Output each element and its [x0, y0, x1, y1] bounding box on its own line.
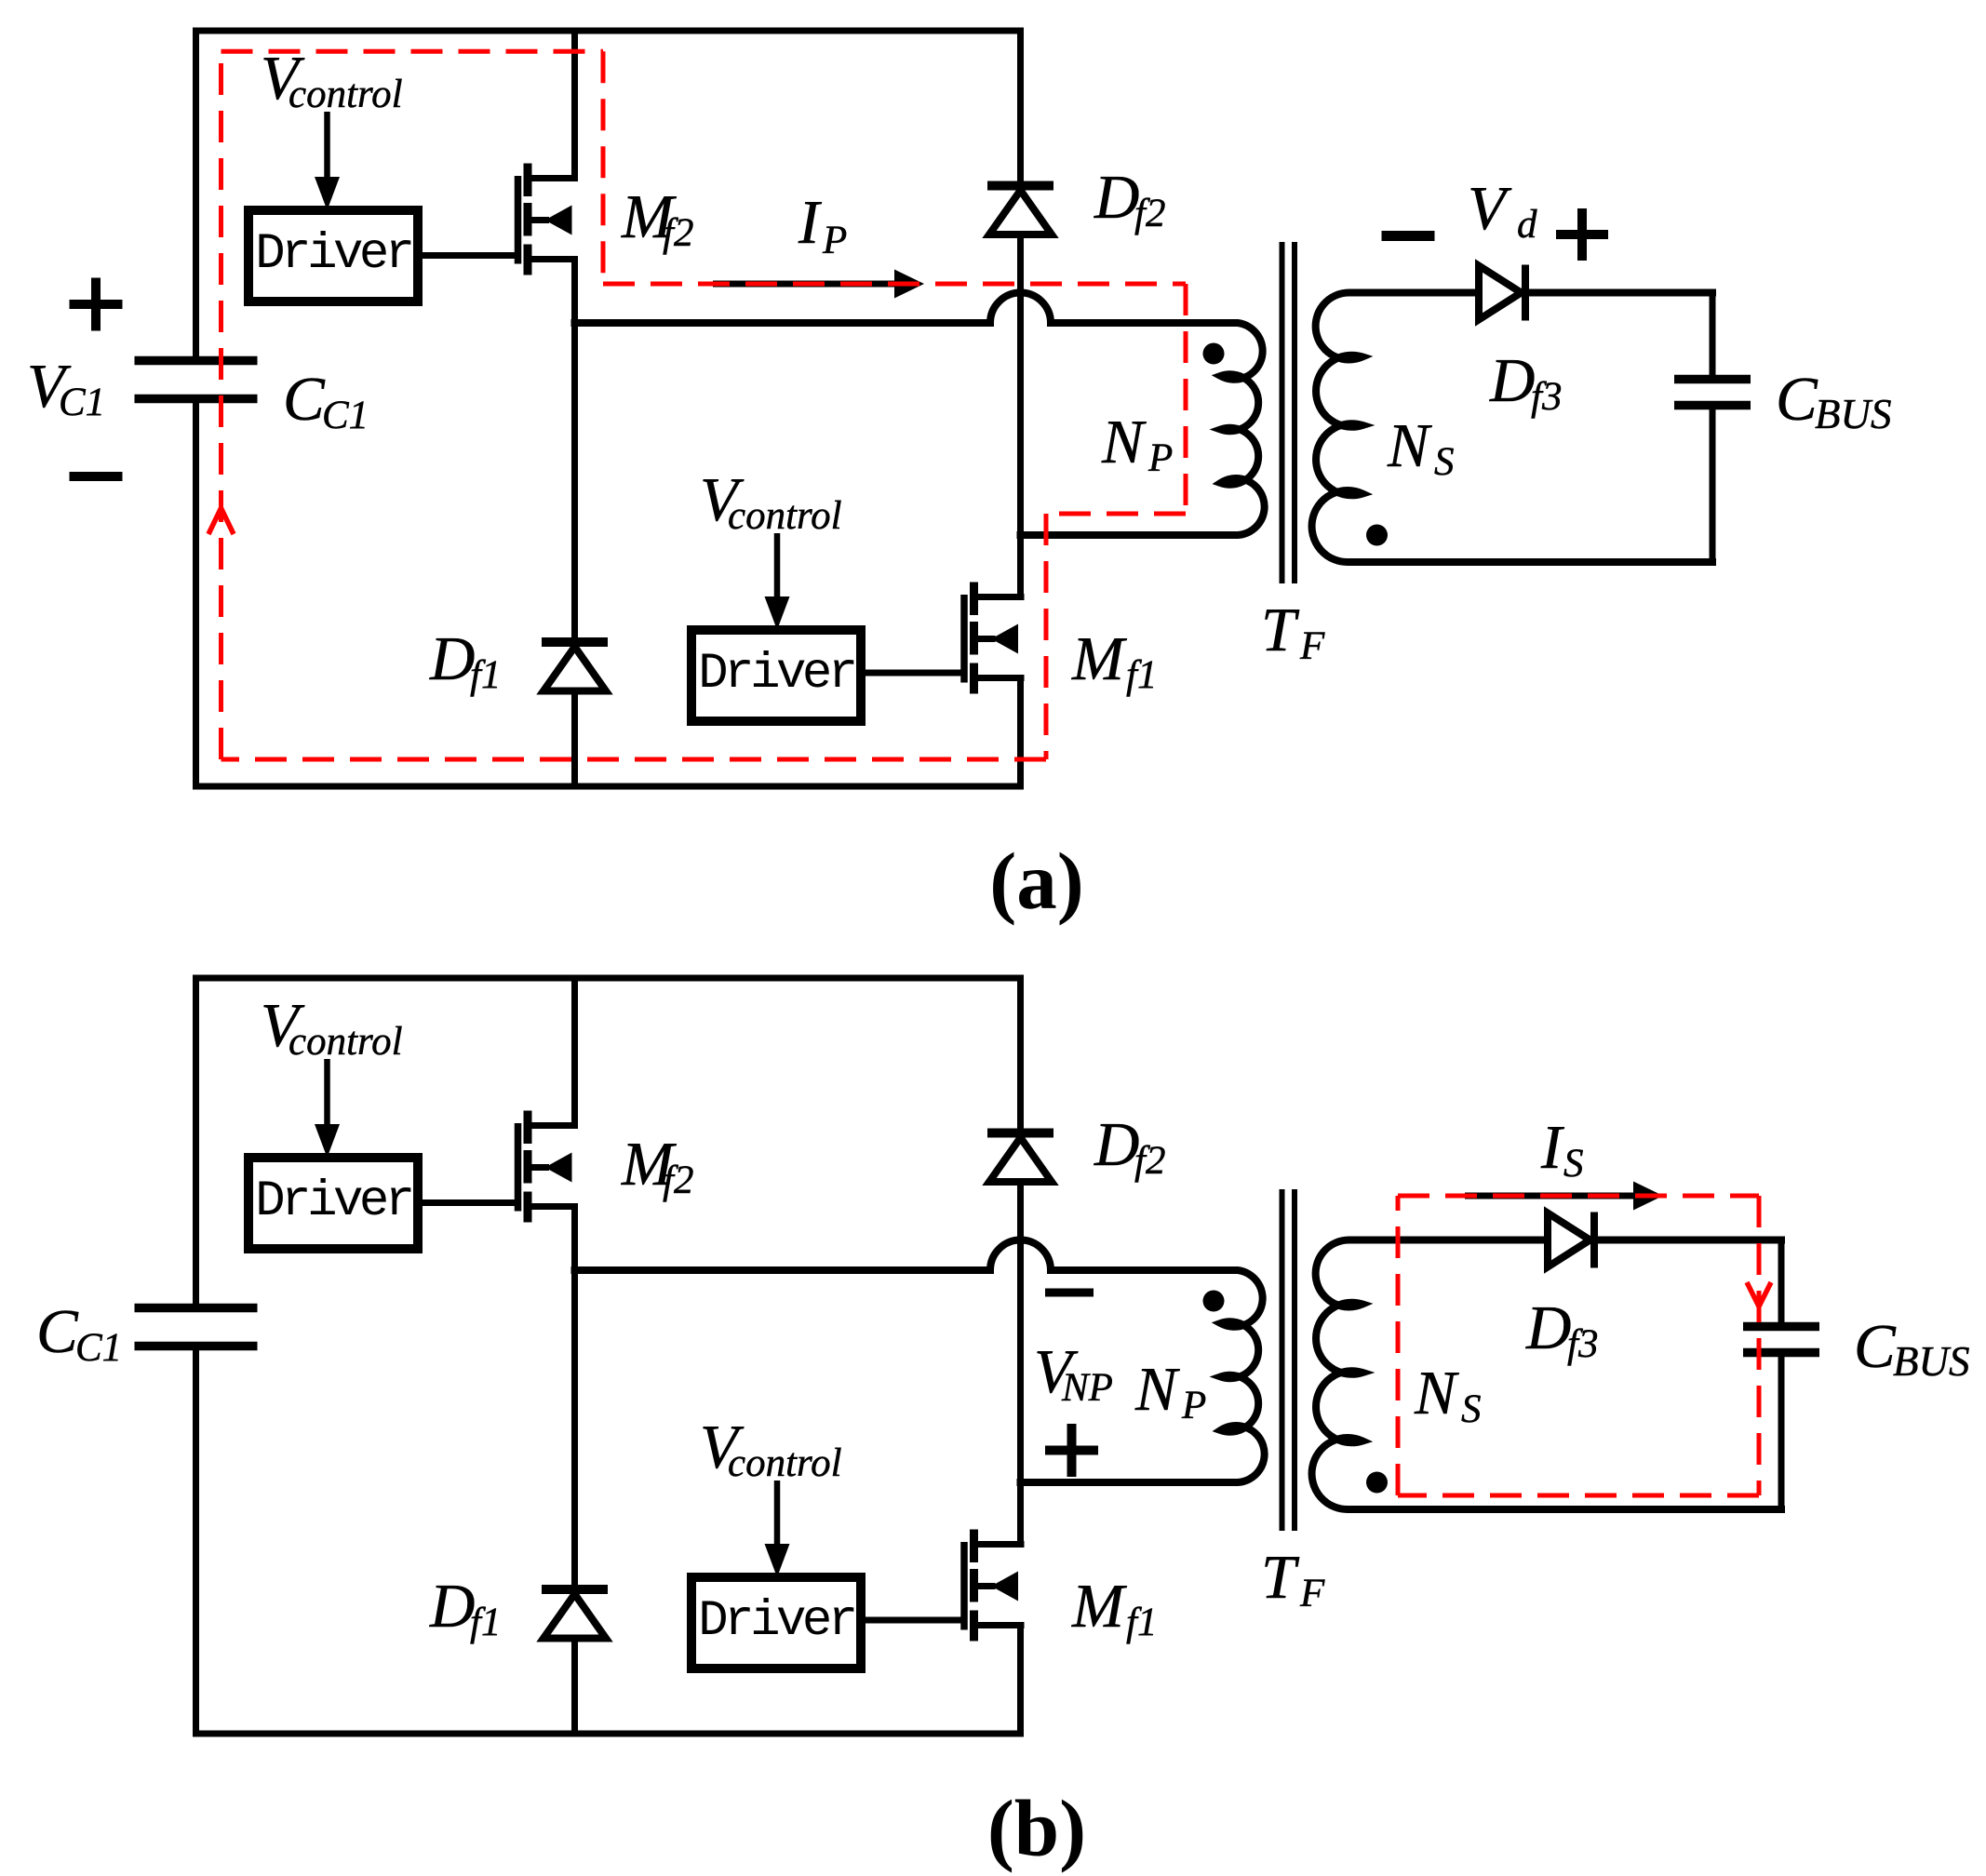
wire CBUS bottom figb	[1778, 1358, 1785, 1506]
svg-text:(a): (a)	[989, 836, 1083, 926]
capacitor CC1 figb	[135, 1308, 258, 1347]
label Mf1 figb	[1071, 1572, 1157, 1644]
current path IS fig b right vertical	[1757, 1196, 1762, 1495]
svg-text:D: D	[1525, 1293, 1571, 1362]
svg-text:BUS: BUS	[1893, 1338, 1970, 1385]
svg-text:M: M	[1071, 1572, 1127, 1641]
label NP figa	[1101, 408, 1173, 480]
label Vcontrol left figa	[261, 44, 403, 116]
svg-text:Driver: Driver	[255, 226, 411, 283]
svg-text:f2: f2	[663, 1159, 693, 1202]
current path IS fig b bottom segment	[1398, 1494, 1759, 1498]
wire driver-left gate figa	[424, 252, 515, 259]
svg-text:f2: f2	[663, 211, 693, 255]
current path IP fig a jog horizontal	[1046, 512, 1186, 516]
label Mf2 figb	[621, 1130, 693, 1202]
dot NS polarity figb	[1366, 1472, 1388, 1494]
svg-text:N: N	[1387, 411, 1432, 480]
winding NS + secondary wires figa	[1312, 292, 1712, 562]
svg-text:d: d	[1517, 203, 1537, 247]
wire figb left+top rail	[196, 978, 1021, 1304]
diode Df2 figb	[987, 1133, 1053, 1183]
wire figb left lower + bottom rail	[196, 1350, 1021, 1734]
wire driver-right gate figb	[867, 1617, 961, 1624]
svg-text:D: D	[1489, 346, 1535, 415]
wire driver-right gate figa	[867, 670, 961, 677]
wire Df2 to Mf1 drain figb	[1017, 1186, 1024, 1541]
svg-text:f1: f1	[1126, 653, 1157, 697]
svg-text:P: P	[1147, 436, 1173, 480]
current path IS fig b top segment	[1398, 1194, 1759, 1199]
transistor Mf1 figb	[964, 1530, 1025, 1641]
svg-text:V: V	[1468, 174, 1512, 243]
label TF figa	[1261, 596, 1325, 668]
diode Df2 figa	[987, 186, 1053, 235]
diode Df3 figb	[1548, 1213, 1594, 1268]
wire Df2 to Mf1 drain figa	[1017, 238, 1024, 594]
svg-text:control: control	[728, 494, 842, 538]
svg-text:F: F	[1299, 624, 1325, 668]
svg-text:D: D	[429, 1572, 475, 1641]
arrow Vcontrol right figa	[765, 533, 790, 630]
svg-text:P: P	[1181, 1384, 1206, 1427]
svg-text:C: C	[1776, 365, 1818, 434]
svg-text:T: T	[1261, 1543, 1300, 1612]
arrow Vcontrol left figa	[315, 112, 340, 210]
wire Df1 to bottom rail figa	[571, 694, 578, 784]
capacitor CC1 figa	[135, 361, 258, 399]
winding NS + secondary wires figb	[1312, 1239, 1781, 1509]
label IS fig b	[1540, 1113, 1584, 1186]
transistor Mf2 figb	[518, 1111, 579, 1223]
red arrow up on left branch fig a	[208, 508, 234, 534]
svg-text:f2: f2	[1134, 1139, 1165, 1183]
label Df1 figa	[429, 624, 501, 697]
svg-text:f1: f1	[470, 653, 501, 697]
transformer TF core figb	[1282, 1189, 1295, 1531]
label Df2 figb	[1094, 1110, 1165, 1183]
label Df3 figa	[1489, 346, 1562, 419]
svg-text:S: S	[1434, 440, 1455, 484]
label Df2 figa	[1094, 163, 1165, 235]
svg-text:C: C	[36, 1297, 79, 1366]
label NP figb	[1134, 1355, 1206, 1427]
transistor Mf2 figa	[518, 164, 579, 275]
svg-text:F: F	[1299, 1572, 1325, 1615]
wire Mf2 source to Df1 figa	[571, 260, 578, 637]
svg-text:M: M	[1071, 624, 1127, 693]
driver Ub1 left	[248, 1158, 418, 1249]
wire CBUS bottom figa	[1710, 410, 1716, 558]
wire NP top + winding NP figb	[575, 1240, 1265, 1483]
label Vd fig a	[1468, 174, 1537, 247]
svg-text:C: C	[1854, 1312, 1897, 1381]
svg-text:D: D	[1094, 163, 1139, 232]
svg-text:C1: C1	[59, 381, 105, 424]
wire CBUS top figb	[1778, 1243, 1785, 1321]
current path IP fig a top segment	[221, 49, 604, 54]
svg-text:D: D	[429, 624, 475, 693]
wire Mf2 source to Df1 figb	[571, 1207, 578, 1585]
wire Mf2 drain figb	[571, 982, 578, 1126]
svg-text:N: N	[1134, 1355, 1180, 1424]
wire Df1 to bottom rail figb	[571, 1641, 578, 1731]
driver Ua1 left	[248, 210, 418, 301]
wire driver-left gate figb	[424, 1199, 515, 1206]
label VC1	[27, 352, 105, 424]
current path IP fig a bottom segment	[221, 757, 1047, 762]
wire Df2 top figb	[1017, 982, 1024, 1129]
transformer TF core figa	[1282, 242, 1295, 583]
driver Ua2 right	[691, 630, 861, 721]
diode Df1 figb	[542, 1589, 608, 1639]
wire Df2 top figa	[1017, 34, 1024, 181]
svg-text:D: D	[1094, 1110, 1139, 1179]
wire NP top + winding NP figa	[575, 293, 1265, 536]
label TF figb	[1261, 1543, 1325, 1615]
capacitor CBUS figa	[1674, 380, 1751, 406]
label Vcontrol right figa	[700, 465, 842, 538]
label Mf2 figa	[621, 182, 693, 255]
label Df1 figb	[429, 1572, 501, 1644]
label Mf1 figa	[1071, 624, 1157, 697]
label CC1	[36, 1297, 122, 1370]
svg-text:C1: C1	[75, 1326, 122, 1370]
svg-text:f3: f3	[1531, 375, 1562, 419]
driver Ub2 right	[691, 1577, 861, 1668]
plus sign Vd fig a	[1556, 208, 1608, 261]
dot NS polarity figa	[1366, 525, 1388, 546]
svg-text:C1: C1	[322, 394, 369, 437]
arrow IP fig a	[713, 270, 924, 299]
diode Df3 figa	[1479, 265, 1525, 321]
label CBUS figa	[1776, 365, 1892, 437]
minus sign Vd fig a	[1382, 231, 1435, 241]
current path IP fig a left vertical	[219, 51, 223, 759]
label Vcontrol left figb	[261, 991, 403, 1064]
current path IP fig a right vertical 2	[1184, 284, 1188, 514]
current path IP fig a jog vertical	[1044, 514, 1049, 759]
svg-text:N: N	[1414, 1359, 1459, 1427]
svg-text:S: S	[1461, 1387, 1482, 1431]
svg-text:control: control	[728, 1441, 842, 1485]
plus sign VC1	[70, 278, 123, 331]
label IP fig a	[798, 188, 847, 262]
arrow Vcontrol left figb	[315, 1059, 340, 1158]
svg-text:P: P	[822, 219, 847, 262]
svg-text:Driver: Driver	[698, 1593, 854, 1650]
transistor Mf1 figa	[964, 583, 1025, 694]
svg-text:Driver: Driver	[255, 1173, 411, 1230]
svg-text:BUS: BUS	[1815, 391, 1892, 437]
svg-text:(b): (b)	[987, 1783, 1086, 1873]
svg-text:control: control	[289, 1020, 403, 1064]
label CC1	[283, 365, 369, 437]
svg-text:T: T	[1261, 596, 1300, 664]
label Df3 figb	[1525, 1293, 1598, 1366]
current path IP fig a horizontal (IP)	[603, 282, 1186, 287]
diode Df1 figa	[542, 642, 608, 691]
wire Mf2 drain figa	[571, 34, 578, 179]
wire figa left lower + bottom rail	[196, 403, 1021, 786]
arrow IS fig b	[1465, 1182, 1663, 1211]
svg-text:I: I	[798, 188, 822, 257]
wire CBUS top figa	[1710, 296, 1716, 374]
current path IP fig a right vertical 1	[601, 51, 606, 284]
capacitor CBUS figb	[1743, 1327, 1819, 1353]
wire figa left+top rail	[196, 31, 1021, 356]
arrow Vcontrol right figb	[765, 1481, 790, 1577]
plus sign VNP fig b	[1045, 1424, 1098, 1477]
label CBUS figb	[1854, 1312, 1970, 1385]
current path IS fig b left vertical	[1396, 1196, 1401, 1495]
svg-text:f3: f3	[1567, 1322, 1598, 1366]
svg-text:N: N	[1101, 408, 1147, 476]
svg-text:I: I	[1540, 1113, 1564, 1182]
label NS figb	[1414, 1359, 1482, 1431]
dot NP polarity figb	[1203, 1291, 1225, 1312]
label Vcontrol right figb	[700, 1413, 842, 1485]
svg-text:f1: f1	[470, 1601, 501, 1644]
label NS figa	[1387, 411, 1455, 484]
dot NP polarity figa	[1203, 343, 1225, 365]
minus sign VC1	[70, 472, 123, 481]
svg-text:control: control	[289, 73, 403, 116]
svg-text:C: C	[283, 365, 326, 434]
svg-text:S: S	[1563, 1142, 1584, 1186]
label VNP fig b	[1034, 1337, 1113, 1410]
svg-text:f1: f1	[1126, 1601, 1157, 1644]
svg-text:Driver: Driver	[698, 646, 854, 703]
red arrow down on right branch fig b	[1747, 1282, 1771, 1306]
svg-text:NP: NP	[1061, 1366, 1113, 1410]
minus sign VNP fig b	[1045, 1289, 1094, 1297]
svg-text:f2: f2	[1134, 192, 1165, 235]
